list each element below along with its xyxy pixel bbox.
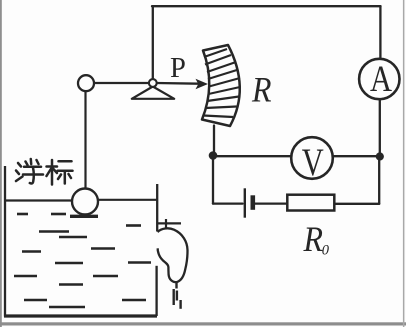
water drip 3 — [179, 300, 181, 309]
resistor R0 box — [287, 195, 334, 211]
battery long plate (positive) — [244, 188, 246, 217]
wire battery to resistor R0 — [255, 202, 287, 204]
wire rheostat bottom to left node — [213, 126, 215, 154]
svg-text:V: V — [302, 141, 324, 184]
faucet inlet pipe top — [158, 222, 182, 224]
faucet body outline — [158, 228, 188, 282]
wire top horizontal — [152, 5, 381, 7]
wiper arrow to rheostat — [157, 82, 200, 85]
rheostat R curved body — [202, 45, 240, 126]
svg-text:R: R — [251, 70, 272, 110]
tank right wall upper — [156, 184, 158, 232]
svg-text:0: 0 — [322, 243, 330, 259]
wire left node down to battery branch — [212, 156, 214, 204]
svg-text:P: P — [170, 53, 186, 84]
node right junction — [376, 152, 384, 160]
lever ball joint — [78, 75, 94, 91]
faucet T handle — [165, 219, 167, 229]
battery short plate (negative) — [251, 195, 256, 210]
wire right node to voltmeter — [334, 155, 380, 157]
scan edge artifact right — [403, 0, 405, 327]
lever arm wire — [94, 82, 151, 84]
wire resistor R0 to right riser — [335, 203, 380, 205]
scan edge artifact left — [0, 0, 2, 327]
wire battery branch left — [213, 202, 243, 204]
faucet outlet stub — [175, 282, 177, 289]
tank left wall — [4, 166, 6, 317]
water surface right of float — [98, 199, 157, 201]
scan edge artifact bottom — [0, 322, 406, 325]
water surface left of float — [5, 199, 73, 201]
wire voltmeter to left node — [213, 155, 291, 157]
tank right wall lower — [155, 266, 157, 316]
float waterline shadow — [70, 215, 98, 218]
float ball — [72, 189, 98, 215]
lever rod down to float — [84, 91, 86, 189]
wire right vertical to ammeter — [379, 6, 381, 59]
wire left vertical to pivot — [152, 6, 154, 80]
voltmeter V — [291, 137, 333, 179]
rheostat hatch lines — [204, 49, 241, 117]
label 浮标 drawn strokes: 浮 — [16, 159, 43, 184]
tank bottom — [4, 314, 157, 317]
label 浮标 drawn strokes: 标 — [47, 160, 73, 185]
water drip 1 — [172, 289, 174, 305]
svg-text:A: A — [370, 59, 392, 100]
wire right riser up to right node — [378, 157, 380, 204]
svg-text:R: R — [303, 219, 324, 259]
node left junction — [209, 151, 218, 160]
wire ammeter to right node — [379, 99, 381, 156]
ammeter A — [359, 59, 399, 99]
pivot circle — [149, 79, 157, 87]
water dashes — [14, 214, 151, 307]
water drip 2 — [176, 291, 178, 301]
fulcrum triangle — [132, 87, 174, 99]
